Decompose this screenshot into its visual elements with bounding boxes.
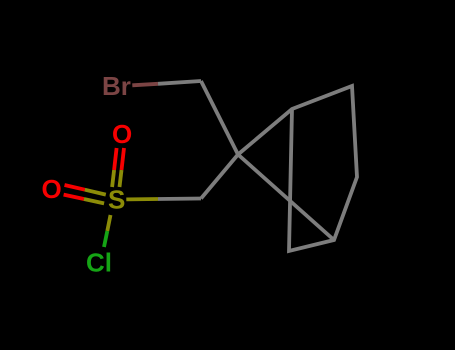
svg-text:O: O bbox=[112, 119, 132, 149]
svg-text:Br: Br bbox=[102, 71, 131, 101]
svg-text:O: O bbox=[42, 174, 62, 204]
svg-text:S: S bbox=[108, 184, 125, 214]
svg-text:Cl: Cl bbox=[86, 248, 112, 278]
